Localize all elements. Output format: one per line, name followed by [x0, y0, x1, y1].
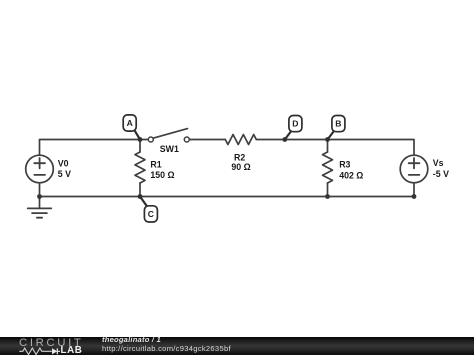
- node B leader: [328, 132, 334, 140]
- svg-text:90 Ω: 90 Ω: [231, 162, 250, 172]
- svg-text:Vs: Vs: [433, 158, 444, 168]
- wire Vs bottom: [413, 183, 415, 197]
- switch SW1 lever: [153, 129, 188, 139]
- switch SW1 pole contact: [148, 137, 153, 142]
- wire bottom rail: [40, 196, 415, 198]
- svg-text:150 Ω: 150 Ω: [150, 170, 174, 180]
- svg-text:5 V: 5 V: [58, 169, 71, 179]
- footer logo resistor-diode glyph: [0, 344, 60, 356]
- wire R1 top: [139, 140, 141, 153]
- node A flag box: [123, 115, 136, 131]
- wire ground stem: [39, 197, 41, 209]
- svg-text:R3: R3: [339, 160, 350, 170]
- wire top rail middle: switch throw to R2: [189, 139, 225, 141]
- wire top rail left: V0 top to switch pole: [40, 140, 149, 156]
- wire top rail right: R2 to Vs top corner: [256, 140, 414, 156]
- voltage source Vs circle: [400, 155, 428, 183]
- svg-text:A: A: [127, 118, 133, 128]
- svg-text:R2: R2: [234, 153, 245, 163]
- svg-text:402 Ω: 402 Ω: [339, 170, 363, 180]
- footer logo CIRCUIT wordmark: [19, 337, 83, 349]
- wire R3 top: [327, 140, 329, 153]
- Vs plus sign: [409, 158, 420, 168]
- resistor R3 body: [323, 152, 333, 183]
- junction node D dot: [282, 137, 287, 142]
- switch SW1 throw contact: [184, 137, 189, 142]
- node D leader: [285, 132, 291, 140]
- junction node B dot: [325, 137, 330, 142]
- node D flag box: [289, 116, 302, 132]
- node B flag box: [332, 116, 345, 132]
- resistor R2 body: [225, 135, 256, 145]
- junction Vs bottom dot: [412, 194, 417, 199]
- footer username line: [102, 335, 161, 344]
- svg-text:-5 V: -5 V: [433, 169, 449, 179]
- footer url line: [102, 344, 231, 353]
- footer bar: [0, 337, 474, 356]
- wire R1 bottom: [139, 183, 141, 197]
- svg-text:SW1: SW1: [160, 144, 179, 154]
- svg-text:B: B: [335, 119, 341, 129]
- footer logo LAB wordmark: [61, 345, 83, 356]
- svg-text:C: C: [148, 209, 154, 219]
- node C leader: [140, 197, 147, 207]
- junction ground-V0 dot: [37, 194, 42, 199]
- junction node C dot: [138, 194, 143, 199]
- voltage source V0 circle: [26, 155, 54, 183]
- node C flag box: [144, 206, 157, 222]
- ground: [28, 208, 52, 217]
- node A leader: [134, 130, 140, 140]
- svg-text:D: D: [292, 119, 298, 129]
- Vs minus sign: [409, 174, 420, 176]
- V0 plus sign: [34, 158, 45, 168]
- V0 minus sign: [34, 174, 45, 176]
- svg-text:R1: R1: [150, 160, 161, 170]
- junction node A dot: [138, 137, 143, 142]
- wire R3 bottom: [327, 183, 329, 197]
- wire V0 bottom: [39, 183, 41, 197]
- svg-text:V0: V0: [58, 158, 69, 168]
- junction R3 bottom dot: [325, 194, 330, 199]
- resistor R1 body: [135, 152, 145, 183]
